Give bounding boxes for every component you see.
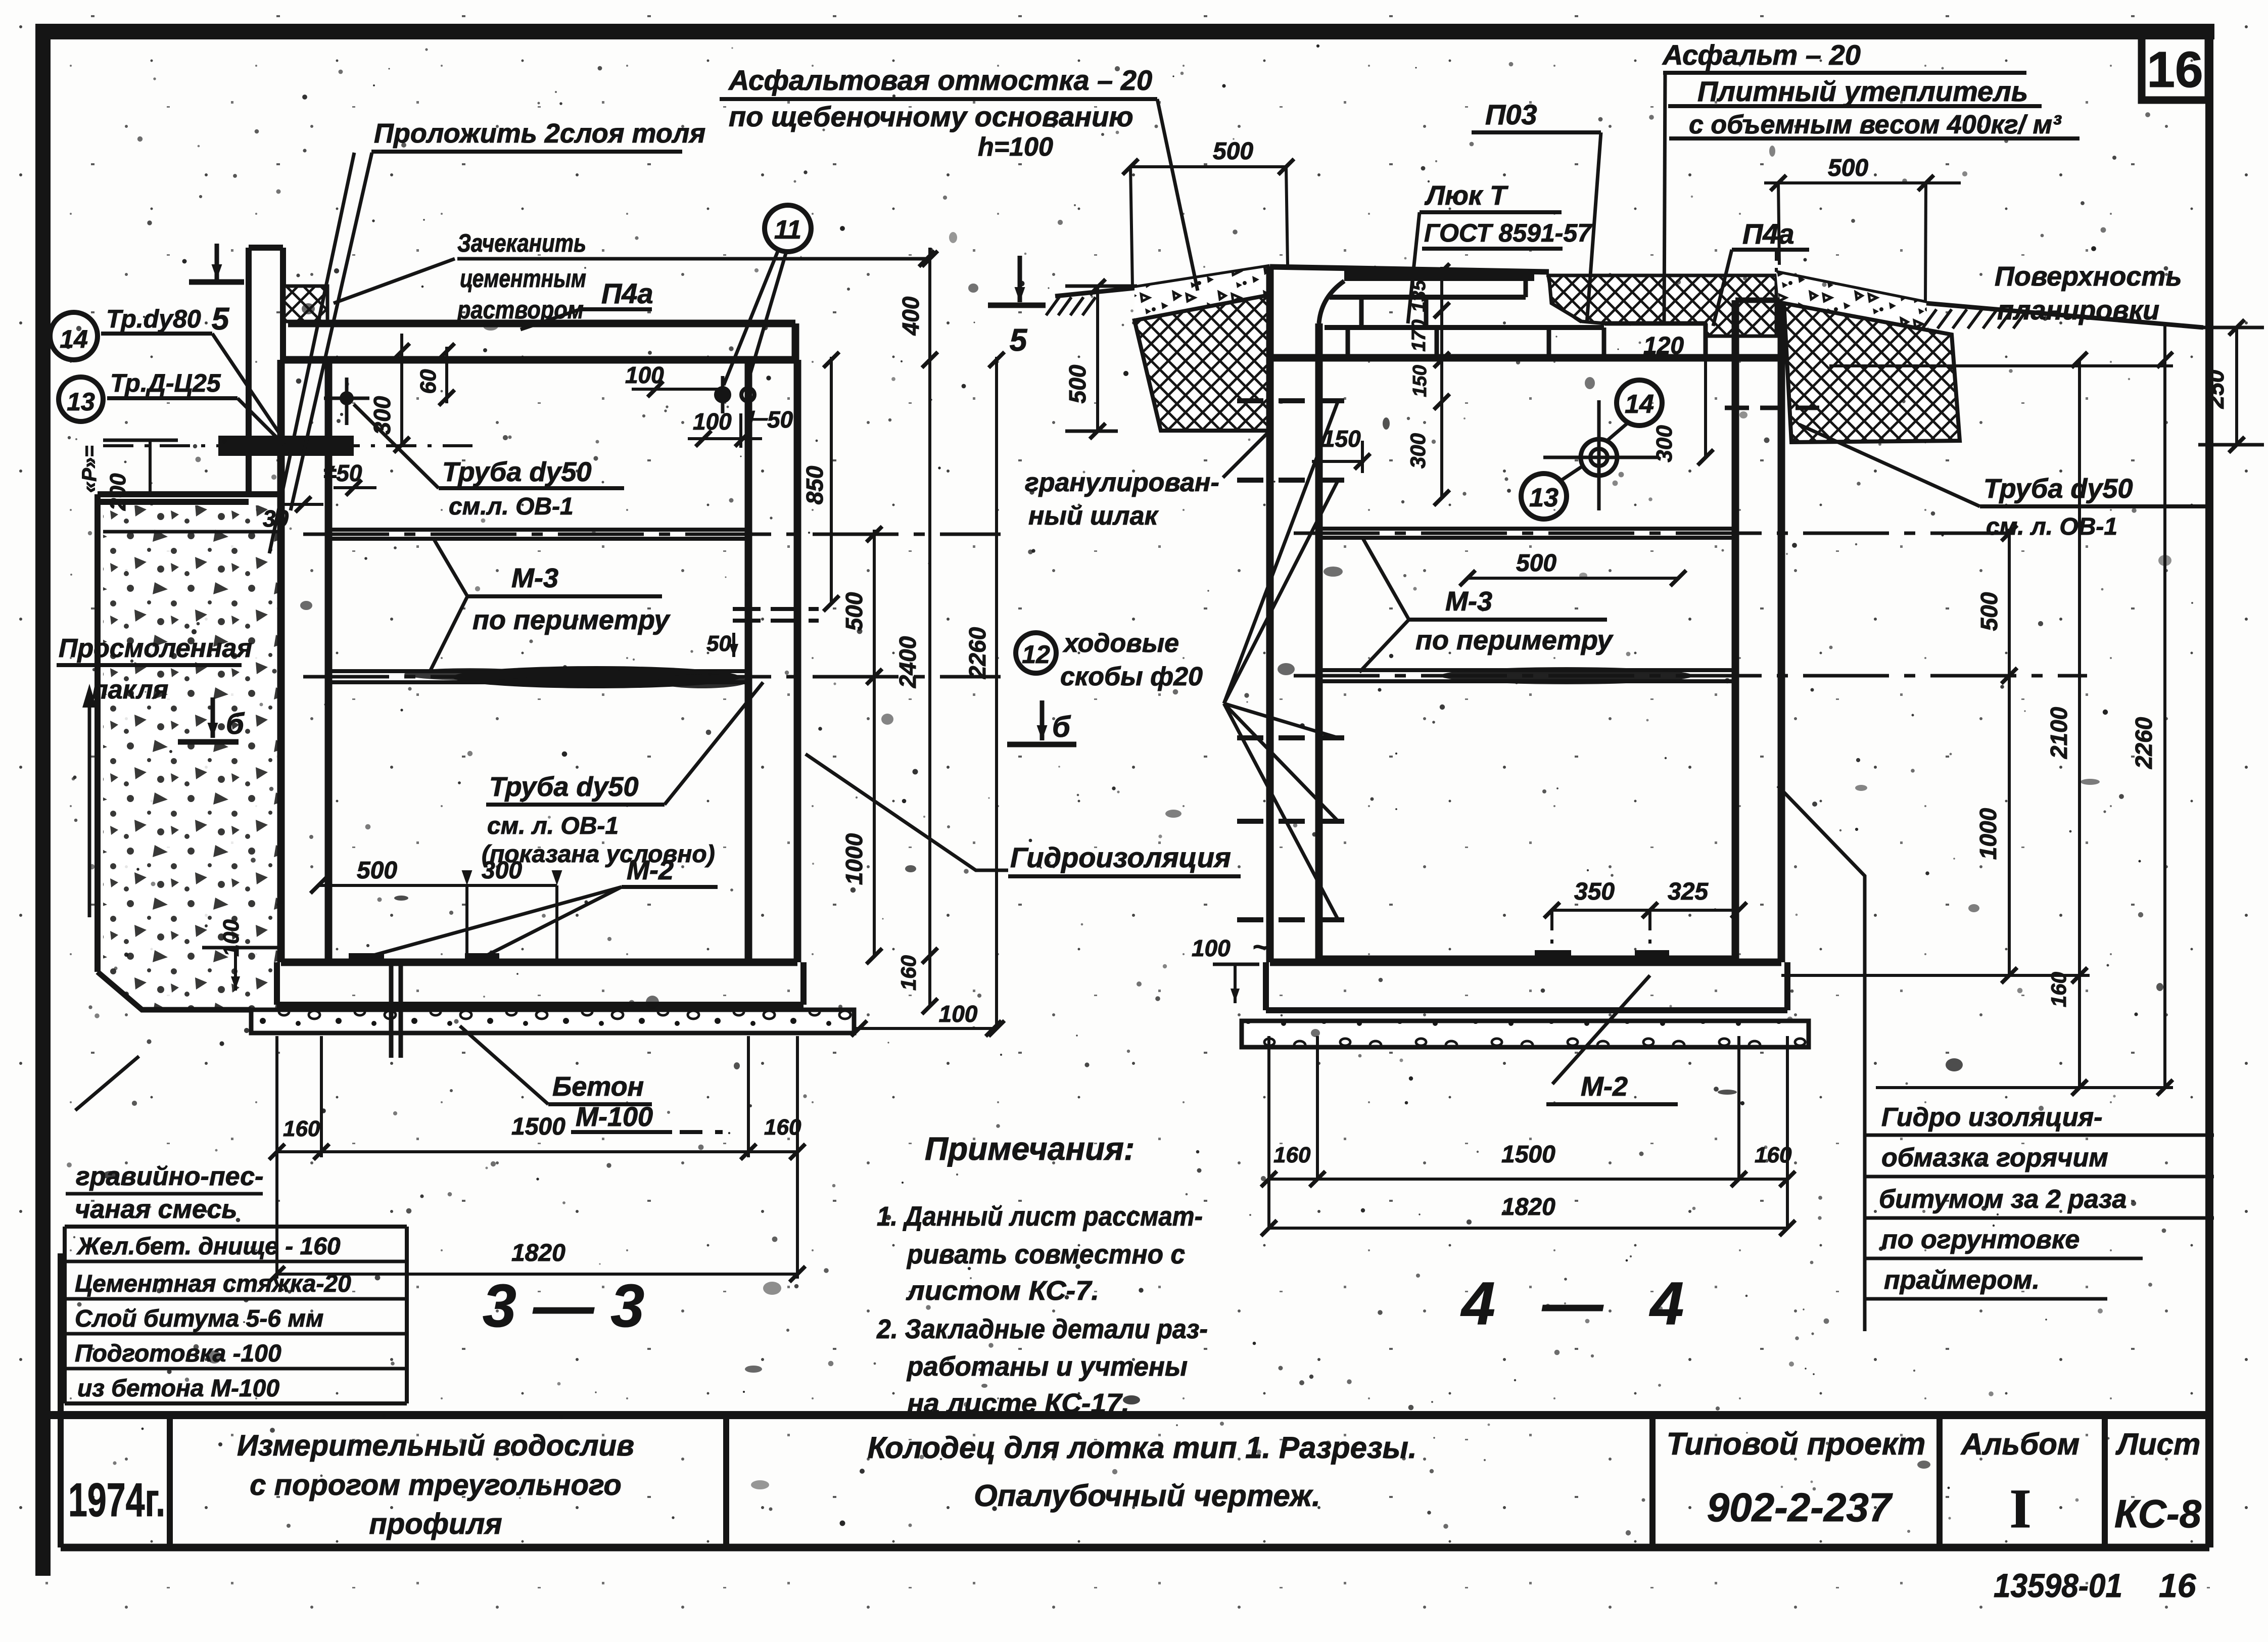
svg-text:с порогом треугольного: с порогом треугольного bbox=[250, 1469, 622, 1502]
svg-text:Тр.Д-Ц25: Тр.Д-Ц25 bbox=[110, 369, 221, 397]
svg-text:б: б bbox=[226, 708, 245, 740]
title block outline bbox=[50, 1411, 2209, 1419]
scan dirt specks bbox=[754, 268, 759, 272]
section 3-3: cement seal crosshatch bbox=[284, 286, 327, 321]
svg-text:14: 14 bbox=[60, 325, 88, 353]
svg-text:Колодец для лотка тип 1. Разр: Колодец для лотка тип 1. Разрезы. bbox=[867, 1431, 1416, 1465]
svg-text:Тр.dу80: Тр.dу80 bbox=[106, 305, 201, 333]
svg-text:планировки: планировки bbox=[1997, 295, 2159, 325]
section 4-4: right wall of well bbox=[1732, 360, 1739, 962]
leader gidroizolyaciya right (wall to text block) bbox=[1778, 786, 1865, 1331]
svg-text:раствором: раствором bbox=[456, 296, 584, 324]
svg-text:ходовые: ходовые bbox=[1062, 629, 1179, 658]
pipe stub through right wall bbox=[1725, 406, 1819, 410]
svg-text:битумом за 2 раза: битумом за 2 раза bbox=[1879, 1185, 2127, 1214]
sheet frame: inner left line above title block bbox=[58, 1253, 64, 1547]
svg-text:Зачеканить: Зачеканить bbox=[457, 229, 586, 257]
svg-text:Проложить 2слоя толя: Проложить 2слоя толя bbox=[374, 118, 705, 149]
fan leaders from skoby label to rungs bbox=[1224, 401, 1338, 703]
leader to gravel-sand mix note bbox=[75, 1056, 139, 1110]
section 4-4: manhole cover plate bbox=[1344, 270, 1534, 281]
dim 100 bottom right of base strip bbox=[854, 1027, 997, 1030]
section 4-4: 120 step cell bbox=[1604, 321, 1706, 326]
svg-text:150: 150 bbox=[1409, 365, 1431, 397]
dim 300 right of target symbol bbox=[1704, 356, 1707, 457]
svg-text:Цементная стяжка-20: Цементная стяжка-20 bbox=[75, 1271, 351, 1297]
svg-text:Люк Т: Люк Т bbox=[1424, 180, 1508, 211]
section 4-4: left wall upper extension bbox=[1266, 267, 1274, 360]
vertical dim 2260 x=1972 bbox=[995, 357, 998, 1028]
svg-text:300: 300 bbox=[482, 857, 522, 884]
callout circle 13 with leader bbox=[1521, 474, 1567, 519]
section 4-4: asphalt apron left band bbox=[1135, 267, 1270, 288]
svg-text:М-2: М-2 bbox=[627, 855, 674, 885]
section mark b (right mid) bbox=[1040, 700, 1045, 740]
right dim chain x=3976: 500 / 1000 bbox=[2008, 529, 2011, 975]
vertical dim chain x=1730: 500 and 1000 bbox=[873, 530, 876, 956]
svg-text:праймером.: праймером. bbox=[1884, 1265, 2040, 1295]
dim 250 far right bbox=[2235, 327, 2238, 445]
svg-text:5: 5 bbox=[1010, 323, 1028, 358]
section 4-4: natural ground line right with hatches bbox=[1926, 303, 2203, 327]
svg-text:902-2-237: 902-2-237 bbox=[1707, 1485, 1893, 1530]
M-2 pads on floor (4-4) bbox=[1535, 950, 1571, 960]
bottom dim chain 160/1500/160 (4-4) bbox=[1267, 1036, 1270, 1228]
callout circle 12: khodovye skoby f20 bbox=[1016, 633, 1056, 673]
svg-text:Асфальтовая отмостка – 20: Асфальтовая отмостка – 20 bbox=[728, 64, 1152, 96]
svg-text:П4а: П4а bbox=[1742, 218, 1794, 250]
svg-text:2. Закладные детали раз-: 2. Закладные детали раз- bbox=[876, 1314, 1208, 1344]
svg-text:16: 16 bbox=[2159, 1567, 2197, 1604]
leader from zachekanit label to seal bbox=[334, 259, 455, 303]
layers table box bbox=[65, 1225, 407, 1229]
sheet frame: right border line bbox=[2205, 31, 2213, 1547]
section 4-4: granulated slag block left (crosshatch) bbox=[1135, 295, 1268, 431]
dim 60 vertical bbox=[445, 347, 448, 403]
section 4-4: asphalt surface right slope bbox=[1776, 273, 1926, 303]
svg-text:200: 200 bbox=[106, 473, 130, 511]
svg-text:100: 100 bbox=[939, 1001, 978, 1027]
section 4-4: floor slab bbox=[1319, 956, 1735, 963]
svg-text:500: 500 bbox=[1213, 138, 1253, 165]
svg-text:160: 160 bbox=[896, 955, 920, 991]
section 3-3: cement screed dotted band under bench bbox=[103, 530, 279, 534]
svg-text:профиля: профиля bbox=[369, 1508, 502, 1540]
svg-text:Плитный утеплитель: Плитный утеплитель bbox=[1697, 75, 2028, 107]
section 3-3: channel bench at left bbox=[98, 491, 283, 497]
svg-text:170: 170 bbox=[1408, 319, 1430, 351]
title block divider after project number cell bbox=[1936, 1415, 1943, 1547]
section 4-4: ladder rungs (dash-dot bars) bbox=[1237, 398, 1344, 403]
section mark 5 (right top) bbox=[1018, 256, 1022, 302]
svg-text:Альбом: Альбом bbox=[1960, 1427, 2080, 1461]
svg-text:М-2: М-2 bbox=[1581, 1071, 1628, 1102]
callout circle 14 with leader bbox=[1617, 380, 1662, 426]
svg-text:по периметру: по периметру bbox=[1415, 625, 1614, 655]
section 3-3: drain pipe below floor bbox=[389, 962, 394, 1058]
svg-text:Лист: Лист bbox=[2115, 1427, 2201, 1461]
vertical dim chain x=1840: 400 bbox=[928, 248, 931, 360]
section 4-4: surface line over neck bbox=[1270, 267, 1549, 272]
svg-text:100: 100 bbox=[1192, 935, 1231, 961]
section 4-4: M-3 band upper bbox=[1319, 527, 1735, 531]
reference level line from label to dim 400 bbox=[457, 257, 930, 261]
svg-text:1500: 1500 bbox=[511, 1113, 565, 1140]
svg-text:I: I bbox=[2010, 1478, 2031, 1539]
svg-text:ный шлак: ный шлак bbox=[1028, 501, 1159, 531]
svg-text:скобы ф20: скобы ф20 bbox=[1060, 662, 1203, 691]
svg-text:обмазка горячим: обмазка горячим bbox=[1881, 1143, 2108, 1172]
section 3-3: standpipe column at left bbox=[246, 248, 252, 494]
callout circle 11 with leaders to bolts bbox=[765, 205, 811, 252]
svg-text:см.л. ОВ-1: см.л. ОВ-1 bbox=[449, 493, 574, 520]
svg-text:Труба dу50: Труба dу50 bbox=[489, 772, 638, 802]
svg-text:13598-01: 13598-01 bbox=[1994, 1567, 2122, 1604]
svg-text:«Р»=: «Р»= bbox=[78, 445, 101, 493]
svg-text:3 — 3: 3 — 3 bbox=[483, 1272, 644, 1340]
svg-text:Примечания:: Примечания: bbox=[925, 1131, 1135, 1167]
svg-text:13: 13 bbox=[1529, 483, 1558, 512]
svg-text:500: 500 bbox=[1064, 364, 1091, 403]
svg-text:400: 400 bbox=[897, 296, 924, 336]
section 4-4: M-3 band lower with smudge bbox=[1319, 668, 1735, 672]
svg-text:Просмоленная: Просмоленная bbox=[59, 634, 252, 663]
svg-text:300: 300 bbox=[369, 396, 395, 435]
svg-text:500: 500 bbox=[1516, 550, 1556, 577]
svg-text:1500: 1500 bbox=[1501, 1141, 1555, 1168]
vertical dim chain x=1840: 2400 and 160 bbox=[928, 360, 931, 1006]
section 3-3: lean concrete base strip M-100 bbox=[251, 1010, 854, 1033]
svg-text:Типовой проект: Типовой проект bbox=[1667, 1427, 1926, 1462]
svg-text:500: 500 bbox=[1976, 592, 2002, 631]
svg-text:Труба dу50: Труба dу50 bbox=[442, 457, 591, 487]
svg-text:160: 160 bbox=[283, 1116, 320, 1141]
sheet frame: top border bar bbox=[35, 24, 2214, 39]
dim 300 vertical at slab left interior bbox=[400, 334, 403, 447]
svg-text:2400: 2400 bbox=[894, 636, 921, 688]
svg-text:11: 11 bbox=[774, 215, 801, 245]
svg-text:150: 150 bbox=[1322, 426, 1361, 452]
svg-text:h=100: h=100 bbox=[978, 132, 1053, 162]
svg-text:Жел.бет. днище - 160: Жел.бет. днище - 160 bbox=[76, 1233, 341, 1260]
label M-2 with leader (4-4) bbox=[1552, 975, 1650, 1084]
leader lines from tar-paper label to wall joint bbox=[269, 153, 354, 553]
bolt symbols on slab bbox=[716, 388, 729, 401]
svg-text:50: 50 bbox=[706, 631, 731, 656]
svg-text:350: 350 bbox=[1574, 878, 1615, 905]
svg-text:325: 325 bbox=[1668, 878, 1709, 905]
svg-text:Поверхность: Поверхность bbox=[1995, 261, 2182, 292]
section 4-4: quarter-round fillet right of neck bbox=[1549, 275, 1582, 321]
svg-text:4 — 4: 4 — 4 bbox=[1460, 1270, 1699, 1337]
svg-text:пакля: пакля bbox=[92, 675, 168, 705]
svg-text:Гидро изоляция-: Гидро изоляция- bbox=[1881, 1103, 2102, 1132]
vertical dim 850 x=1645 bbox=[830, 357, 833, 603]
svg-text:см. л. ОВ-1: см. л. ОВ-1 bbox=[487, 813, 619, 839]
section 4-4: left wall of well bbox=[1266, 360, 1274, 962]
svg-text:цементным: цементным bbox=[460, 264, 586, 293]
svg-text:М-3: М-3 bbox=[1445, 586, 1492, 617]
M-2 embedded pads on floor bbox=[349, 953, 384, 963]
title block divider after project name cell bbox=[723, 1415, 729, 1547]
svg-text:⊢50: ⊢50 bbox=[747, 406, 793, 433]
svg-text:Гидроизоляция: Гидроизоляция bbox=[1010, 841, 1231, 873]
svg-text:Труба dу50: Труба dу50 bbox=[1983, 474, 2133, 504]
title block divider after sheet name cell bbox=[1649, 1415, 1656, 1547]
svg-text:160: 160 bbox=[1273, 1143, 1311, 1167]
section 3-3: tarred oakum gap and concrete fill below bench bbox=[103, 505, 279, 1009]
section 4-4: quarter-round fillet left of neck bbox=[1319, 281, 1344, 323]
svg-text:1820: 1820 bbox=[511, 1240, 565, 1266]
svg-text:гранулирован-: гранулирован- bbox=[1025, 468, 1219, 497]
svg-text:листом КС-7.: листом КС-7. bbox=[906, 1276, 1099, 1306]
svg-text:ГОСТ 8591-57: ГОСТ 8591-57 bbox=[1424, 219, 1592, 247]
svg-text:Бетон: Бетон bbox=[552, 1071, 644, 1102]
section 4-4: granulated slag block right (crosshatch) bbox=[1784, 303, 1960, 442]
svg-text:1974г.: 1974г. bbox=[68, 1473, 165, 1526]
section 3-3: right wall of well bbox=[745, 360, 752, 962]
section 4-4: middle insulation crosshatch band bbox=[1546, 275, 1776, 336]
svg-text:П4а: П4а bbox=[601, 277, 653, 309]
svg-text:300: 300 bbox=[1406, 433, 1430, 468]
svg-text:Подготовка -100: Подготовка -100 bbox=[75, 1340, 281, 1367]
svg-text:12: 12 bbox=[1022, 640, 1050, 669]
svg-text:1000: 1000 bbox=[1975, 808, 2001, 860]
svg-text:Измерительный водослив: Измерительный водослив bbox=[237, 1429, 634, 1462]
svg-text:2100: 2100 bbox=[2046, 707, 2072, 759]
svg-text:работаны и учтены: работаны и учтены bbox=[906, 1351, 1188, 1382]
section 4-4: top slab line bbox=[1270, 354, 1829, 362]
svg-text:б: б bbox=[1052, 711, 1071, 743]
svg-text:500: 500 bbox=[357, 857, 397, 884]
svg-text:1820: 1820 bbox=[1501, 1194, 1555, 1221]
svg-text:1000: 1000 bbox=[841, 833, 867, 885]
svg-text:100: 100 bbox=[693, 408, 732, 435]
svg-text:М-100: М-100 bbox=[576, 1102, 653, 1132]
svg-text:160: 160 bbox=[764, 1115, 801, 1140]
section 3-3: pipe penetration blob through left wall (Tr D-Ts25) bbox=[218, 436, 354, 456]
section 3-3: M-3 perimeter band upper bbox=[328, 528, 748, 532]
svg-text:160: 160 bbox=[1755, 1143, 1792, 1167]
vertical dim stack 135/170/150/300 bbox=[1440, 267, 1443, 498]
svg-text:из бетона М-100: из бетона М-100 bbox=[77, 1375, 279, 1402]
bottom dim 1820 (4-4) bbox=[1269, 1227, 1787, 1230]
svg-text:16: 16 bbox=[2147, 41, 2203, 98]
section 4-4: brick neck courses bbox=[1325, 325, 1604, 330]
svg-text:Опалубочный чертеж.: Опалубочный чертеж. bbox=[974, 1479, 1320, 1513]
svg-text:см. л. ОВ-1: см. л. ОВ-1 bbox=[1986, 513, 2117, 540]
svg-text:500: 500 bbox=[841, 592, 867, 631]
svg-text:5: 5 bbox=[212, 302, 230, 337]
svg-text:60: 60 bbox=[416, 369, 441, 394]
section 3-3: top slab (perekrytie) bbox=[288, 320, 795, 327]
svg-text:П03: П03 bbox=[1485, 99, 1537, 130]
section 3-3: anchor dot on slab bbox=[340, 391, 354, 405]
svg-text:чаная смесь: чаная смесь bbox=[75, 1195, 237, 1224]
callout circle 14: Tr.dy80 bbox=[50, 312, 98, 360]
section 3-3: floor slab of well bbox=[281, 959, 797, 966]
svg-text:13: 13 bbox=[67, 388, 95, 416]
section mark 5 (left top) bbox=[215, 244, 219, 279]
dim datum lines right side bbox=[1829, 364, 2173, 367]
pipe stub through right wall (shown conventionally) bbox=[733, 607, 819, 611]
svg-text:Асфальт – 20: Асфальт – 20 bbox=[1662, 39, 1861, 71]
svg-text:100: 100 bbox=[219, 919, 244, 957]
svg-text:2260: 2260 bbox=[964, 627, 990, 679]
pipe target symbol (wall sleeve) bbox=[1581, 439, 1617, 476]
svg-text:500: 500 bbox=[1828, 155, 1868, 181]
title block divider after year cell bbox=[167, 1415, 173, 1547]
svg-text:с объемным весом 400кг/ м³: с объемным весом 400кг/ м³ bbox=[1689, 110, 2062, 139]
leader from asfalt label down to insulation bbox=[1664, 73, 1665, 323]
svg-text:1. Данный лист рассмат-: 1. Данный лист рассмат- bbox=[877, 1201, 1203, 1232]
vertical dim 500 left trench depth bbox=[1096, 287, 1099, 431]
svg-text:850: 850 bbox=[801, 465, 828, 504]
svg-text:по щебеночному основанию: по щебеночному основанию bbox=[729, 101, 1133, 132]
svg-text:~: ~ bbox=[1252, 932, 1268, 962]
bottom dim 1820 (section 3-3) bbox=[277, 1273, 797, 1276]
svg-text:по периметру: по периметру bbox=[472, 605, 671, 635]
bottom dim chain 160/1500/160 (section 3-3) bbox=[275, 1036, 278, 1279]
section mark b (left mid) bbox=[211, 697, 215, 738]
section 3-3: left wall of well bbox=[277, 360, 285, 962]
arrow from paklya label upward bbox=[88, 690, 91, 917]
svg-text:2260: 2260 bbox=[2131, 717, 2157, 769]
svg-text:160: 160 bbox=[2047, 972, 2070, 1007]
svg-text:по огрунтовке: по огрунтовке bbox=[1881, 1225, 2080, 1254]
svg-text:М-3: М-3 bbox=[511, 563, 558, 593]
section 3-3: M-3 perimeter band lower with ink smudge bbox=[328, 669, 748, 673]
right dim chain x=4115: 2100 / 160 bbox=[2078, 360, 2081, 1088]
section 4-4: lean concrete base strip bbox=[1242, 1021, 1809, 1047]
page number box 16 (top right) bbox=[2142, 30, 2208, 100]
callout circle 13: Tr.D-Ts25 bbox=[59, 377, 103, 421]
svg-text:КС-8: КС-8 bbox=[2114, 1491, 2202, 1536]
svg-text:250: 250 bbox=[2202, 369, 2229, 409]
dim P-200 at channel left bbox=[103, 439, 178, 442]
sheet frame: left border bar bbox=[35, 24, 51, 1576]
svg-text:Слой битума 5-6 мм: Слой битума 5-6 мм bbox=[75, 1305, 323, 1332]
right dim chain x=4284: 2260 bbox=[2163, 323, 2166, 1088]
section 4-4: right wall upper extension bbox=[1732, 300, 1739, 360]
svg-text:ривать совместно с: ривать совместно с bbox=[906, 1239, 1185, 1270]
title block divider album/list bbox=[2102, 1415, 2108, 1547]
section 4-4: ground surface left slope with hatches bbox=[1055, 288, 1135, 296]
svg-text:14: 14 bbox=[1625, 390, 1654, 419]
svg-text:300: 300 bbox=[1652, 425, 1677, 462]
